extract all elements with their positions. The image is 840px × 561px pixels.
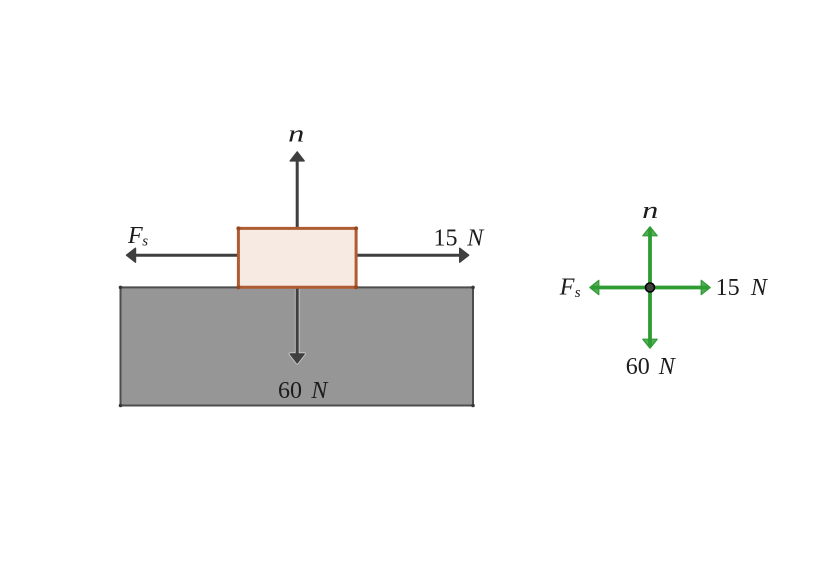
svg-text:60: 60 — [278, 378, 302, 404]
wire: weight force shaft 60N core (left figure) — [296, 287, 299, 361]
FBD: friction vector Fs (green left) — [591, 286, 650, 290]
FBD: applied vector 15N (green right) — [650, 286, 709, 290]
label n (left figure) — [288, 121, 304, 147]
svg-text:15: 15 — [434, 226, 458, 252]
svg-text:N: N — [310, 378, 329, 404]
arrowhead 60N (left figure) — [290, 354, 304, 363]
FBD: weight vector 60N (green down) — [648, 288, 652, 347]
ground surface (gray table) — [121, 287, 474, 405]
arrowhead n (left figure) — [290, 152, 304, 161]
FBD: particle node (center dot) — [646, 283, 655, 292]
halo of weight force shaft (left figure) — [295, 289, 300, 360]
FBD label n — [642, 198, 658, 224]
svg-text:n: n — [288, 121, 304, 147]
svg-text:N: N — [750, 275, 769, 301]
block corner vertices — [236, 226, 358, 289]
block on surface — [238, 228, 356, 287]
svg-text:F: F — [559, 274, 575, 300]
svg-text:n: n — [642, 198, 658, 224]
wire: normal force shaft n (left figure) — [296, 154, 299, 229]
svg-text:s: s — [142, 234, 148, 250]
svg-text:15: 15 — [716, 275, 740, 301]
FBD: normal force vector n (green up) — [648, 228, 652, 287]
FBD arrowhead Fs — [590, 280, 599, 294]
FBD arrowhead n — [643, 227, 657, 236]
FBD arrowhead 15N — [701, 280, 710, 294]
halo of weight arrowhead (left figure) — [290, 354, 304, 363]
ground corner vertices — [119, 286, 475, 408]
svg-text:F: F — [127, 223, 143, 249]
svg-text:N: N — [466, 226, 485, 252]
svg-text:N: N — [658, 354, 677, 380]
wire: applied force shaft 15N (left figure) — [356, 254, 467, 257]
FBD arrowhead 60N — [643, 339, 657, 348]
arrowhead 15N (left figure) — [460, 248, 469, 262]
svg-text:60: 60 — [626, 354, 650, 380]
wire: friction force shaft Fs (left figure) — [129, 254, 238, 257]
arrowhead Fs (left figure) — [127, 248, 136, 262]
svg-text:s: s — [575, 285, 581, 301]
